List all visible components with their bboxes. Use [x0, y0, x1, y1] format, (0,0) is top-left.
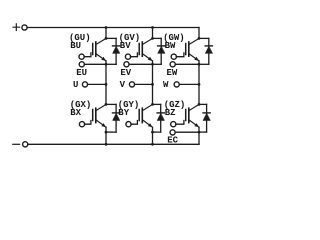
wire gate lead BW — [176, 53, 184, 57]
junction node at 152.5,64.3 — [151, 63, 154, 66]
svg-text:EU: EU — [76, 68, 87, 78]
gate terminal circle BX — [79, 122, 84, 127]
label V — [120, 80, 126, 90]
emitter sense terminal EV circle — [124, 62, 129, 67]
junction node at 199,104.4 — [198, 103, 201, 106]
diode DY (freewheel) — [157, 104, 164, 132]
junction node at 106,104.4 — [105, 103, 108, 106]
wire collector node horizontal W — [199, 37, 209, 39]
svg-text:EV: EV — [120, 68, 131, 78]
wire emitter vertical Y — [152, 127, 154, 144]
terminal P circle — [22, 25, 27, 30]
wire diode return horizontal U — [106, 63, 116, 65]
svg-text:V: V — [120, 80, 126, 90]
wire gate lead BY — [131, 121, 137, 125]
junction node at 106,38.4 — [105, 37, 108, 40]
wire diode return horizontal W — [199, 63, 209, 65]
wire diode return horizontal X — [106, 131, 116, 133]
output terminal U circle — [82, 82, 87, 87]
wire collector node horizontal Z — [199, 103, 207, 105]
transistor QY (IGBT Y) — [139, 104, 152, 127]
junction node at 152.5,84.4 — [151, 83, 154, 86]
svg-text:BU: BU — [70, 41, 81, 51]
gate terminal circle BV — [125, 54, 130, 59]
junction node at 106,84.4 — [105, 83, 108, 86]
wire EU to node — [84, 63, 106, 65]
svg-text:EC: EC — [167, 136, 178, 146]
transistor QW (IGBT W) — [186, 38, 199, 61]
terminal N circle — [23, 142, 28, 147]
label BY — [118, 108, 129, 118]
wire collector vertical U — [105, 28, 107, 39]
label (GW) — [163, 33, 185, 43]
junction node at 106,64.3 — [105, 63, 108, 66]
wire EV to node — [129, 63, 153, 65]
diode DW (freewheel) — [205, 38, 212, 64]
svg-text:W: W — [163, 80, 169, 90]
label (GZ) — [164, 100, 186, 110]
wire P bus (top) — [27, 27, 199, 29]
label BX — [70, 108, 81, 118]
wire emitter vertical X — [105, 127, 107, 144]
label BW — [165, 41, 176, 51]
wire diode return horizontal V — [153, 63, 162, 65]
wire gate lead BU — [84, 53, 91, 57]
junction node at 106,27.5 — [105, 26, 108, 29]
wire output V to phase — [135, 83, 153, 85]
junction node at 152.5,38.4 — [151, 37, 154, 40]
junction node at 152.5,27.5 — [151, 26, 154, 29]
svg-text:BW: BW — [165, 41, 176, 51]
label (GX) — [70, 100, 92, 110]
diode DZ (freewheel) — [203, 104, 210, 132]
gate terminal circle BY — [126, 122, 131, 127]
wire diode return horizontal Z — [199, 131, 207, 133]
junction node at 199,38.4 — [198, 37, 201, 40]
wire collector node horizontal Y — [153, 103, 161, 105]
transistor QX (IGBT X) — [93, 104, 106, 127]
diode DV (freewheel) — [158, 38, 165, 64]
emitter sense terminal EU circle — [79, 62, 84, 67]
label BZ — [165, 108, 176, 118]
wire gate lead BZ — [176, 121, 184, 125]
junction node at 152.5,144.3 — [151, 143, 154, 146]
wire collector node horizontal U — [106, 37, 116, 39]
label (GV) — [119, 33, 141, 43]
transistor QU (IGBT U) — [93, 38, 106, 61]
wire collector node horizontal X — [106, 103, 116, 105]
gate terminal circle BZ — [171, 122, 176, 127]
label U — [73, 80, 78, 90]
svg-text:BV: BV — [120, 41, 131, 51]
wire N bus (bottom) — [28, 143, 199, 145]
junction node at 152.5,104.4 — [151, 103, 154, 106]
wire collector node horizontal V — [153, 37, 162, 39]
junction node at 106,144.3 — [105, 143, 108, 146]
label BV — [120, 41, 131, 51]
label (GY) — [118, 100, 140, 110]
wire emitter vertical Z — [198, 127, 200, 144]
emitter sense terminal EW circle — [170, 62, 175, 67]
wire emitter vertical W — [198, 61, 200, 105]
diode DU (freewheel) — [113, 38, 120, 64]
junction node at 152.5,132.1 — [151, 131, 154, 134]
wire emitter vertical U — [105, 61, 107, 105]
wire diode return horizontal Y — [153, 131, 161, 133]
wire EW to node — [175, 63, 199, 65]
gate terminal circle BW — [171, 54, 176, 59]
label EU — [76, 68, 87, 78]
label BU — [70, 41, 81, 51]
svg-text:EW: EW — [167, 68, 178, 78]
svg-text:BY: BY — [118, 108, 129, 118]
terminal N minus sign — [13, 143, 20, 145]
svg-text:BX: BX — [70, 108, 81, 118]
terminal P plus sign — [13, 24, 20, 31]
svg-text:U: U — [73, 80, 78, 90]
transistor QV (IGBT V) — [139, 38, 152, 61]
label W — [163, 80, 169, 90]
gate terminal circle BU — [79, 54, 84, 59]
wire output U to phase — [88, 83, 107, 85]
diode DX (freewheel) — [113, 104, 120, 132]
junction node at 199,132.1 — [198, 131, 201, 134]
wire collector vertical W — [198, 28, 200, 39]
junction node at 199,84.4 — [198, 83, 201, 86]
wire EC to node — [175, 131, 199, 133]
emitter sense terminal EC circle — [170, 130, 175, 135]
transistor QZ (IGBT Z) — [186, 104, 199, 127]
label EV — [120, 68, 131, 78]
label (GU) — [69, 33, 91, 43]
wire collector vertical V — [152, 28, 154, 39]
output terminal V circle — [129, 82, 134, 87]
label EW — [167, 68, 178, 78]
wire output W to phase — [179, 83, 199, 85]
wire gate lead BV — [131, 53, 138, 57]
wire gate lead BX — [85, 121, 91, 125]
junction node at 106,132.1 — [105, 131, 108, 134]
output terminal W circle — [174, 82, 179, 87]
junction node at 199,64.3 — [198, 63, 201, 66]
svg-text:BZ: BZ — [165, 108, 176, 118]
label EC — [167, 136, 178, 146]
wire emitter vertical V — [152, 61, 154, 105]
